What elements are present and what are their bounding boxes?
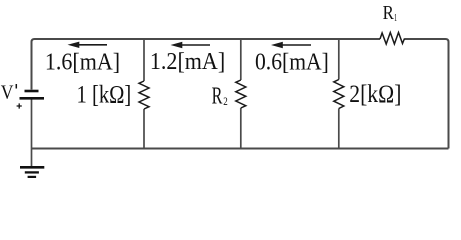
wire branch 3 xyxy=(338,39,340,149)
svg-text:1: 1 xyxy=(394,13,397,24)
battery plus sign xyxy=(17,103,22,108)
svg-text:0.6[mA]: 0.6[mA] xyxy=(255,49,329,75)
wire left lower (battery to bottom, into ground stem) xyxy=(31,100,33,167)
wire branch 2 xyxy=(240,39,242,149)
arrow current I1 xyxy=(68,42,108,48)
svg-text:V: V xyxy=(1,81,14,103)
resistor R1 xyxy=(380,33,405,45)
svg-text:R: R xyxy=(212,83,223,110)
arrow current I3 xyxy=(271,42,311,48)
resistor 1k body xyxy=(139,81,149,109)
svg-text:2: 2 xyxy=(223,96,228,108)
wire top-right corner and right side xyxy=(405,39,449,149)
svg-text:1.6[mA]: 1.6[mA] xyxy=(45,49,120,75)
svg-text:1.2[mA]: 1.2[mA] xyxy=(150,49,225,75)
svg-text:2[kΩ]: 2[kΩ] xyxy=(349,81,401,108)
ground xyxy=(20,167,44,177)
battery V bottom plate xyxy=(20,97,45,100)
battery V (source) top plate xyxy=(25,90,39,93)
svg-text:R: R xyxy=(383,2,394,24)
svg-text:1 [kΩ]: 1 [kΩ] xyxy=(77,81,132,108)
resistor R2 body xyxy=(236,80,246,108)
wire branch 1 xyxy=(143,39,145,149)
resistor 2k body xyxy=(334,80,344,109)
battery minus tick xyxy=(15,84,17,89)
wire bottom xyxy=(32,148,449,150)
wire top from left corner to R1 xyxy=(32,39,381,90)
arrow current I2 xyxy=(171,42,211,48)
